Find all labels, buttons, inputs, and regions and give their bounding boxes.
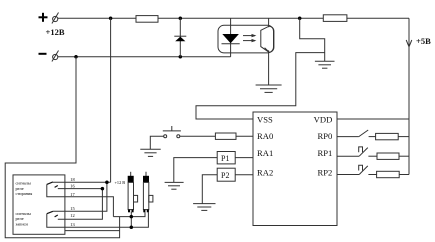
- relay1 pin down: [130, 212, 132, 228]
- LED triangle: [222, 34, 239, 43]
- wire P1 to ground: [174, 158, 217, 183]
- ground button: [140, 148, 160, 150]
- wire +5V drop: [408, 18, 410, 174]
- svg-text:RP2: RP2: [317, 167, 332, 177]
- svg-text:сигналы: сигналы: [16, 180, 31, 185]
- wire button to resistor: [180, 135, 216, 137]
- node collector junction: [298, 17, 302, 21]
- relay contact 2 lever: [47, 211, 53, 213]
- wire enclosure inner bottom line: [65, 230, 120, 232]
- node relay1 busB: [130, 226, 134, 230]
- wire +12V rail: [58, 17, 409, 19]
- LED cathode bar: [222, 43, 240, 45]
- svg-text:стирания: стирания: [16, 191, 33, 196]
- wire enclosure path from minus rail: [5, 57, 119, 238]
- node B1-B2: [101, 187, 105, 191]
- svg-text:RP0: RP0: [317, 131, 332, 141]
- node diode bottom: [179, 55, 183, 59]
- wire RP1: [337, 155, 359, 157]
- svg-text:17: 17: [70, 192, 75, 197]
- svg-text:P1: P1: [221, 154, 229, 163]
- switch S1 lever: [359, 130, 368, 137]
- ground P1: [165, 181, 184, 183]
- relay K2: [143, 172, 153, 212]
- minus sign: [39, 53, 47, 55]
- wire P1 to RA1: [235, 157, 253, 159]
- svg-text:+5В: +5В: [416, 36, 431, 46]
- wire RP2: [337, 174, 359, 176]
- button SB1: [164, 135, 167, 138]
- wire common C1: [47, 184, 114, 216]
- wire common C2: [47, 212, 149, 227]
- ground collector branch: [315, 60, 335, 62]
- arrow +5B: [406, 40, 412, 47]
- wire A1: [53, 181, 111, 183]
- svg-text:12: 12: [70, 213, 74, 218]
- svg-text:13: 13: [70, 222, 75, 227]
- relay contact 1 lever: [47, 182, 53, 185]
- svg-text:VDD: VDD: [314, 114, 333, 124]
- switch S3 lever: [359, 166, 368, 175]
- resistor R5: [377, 153, 399, 159]
- wire RP0: [337, 136, 359, 138]
- diode VD1: [179, 18, 181, 57]
- wire collector to ground: [300, 18, 325, 61]
- ground opto emitter: [256, 84, 282, 86]
- svg-text:RA2: RA2: [257, 167, 273, 177]
- wire B2: [58, 189, 103, 220]
- wire P2 to ground: [202, 175, 217, 204]
- light arrow 2: [243, 40, 255, 42]
- bus A relay feed: [113, 212, 145, 216]
- svg-text:RP1: RP1: [317, 148, 332, 158]
- wire A2: [53, 182, 107, 211]
- node A1-A2: [105, 180, 109, 184]
- collector wire: [268, 18, 270, 27]
- resistor R2: [323, 15, 347, 22]
- wire +12 drop to relay area: [110, 18, 112, 182]
- optocoupler U1 box: [218, 25, 274, 53]
- LED anode wire: [230, 18, 232, 57]
- ground P2: [193, 203, 215, 205]
- svg-text:VSS: VSS: [257, 114, 273, 124]
- phototransistor envelope: [261, 26, 274, 52]
- svg-text:реле: реле: [16, 216, 24, 221]
- svg-text:16: 16: [70, 184, 75, 189]
- contact tick B1: [55, 186, 58, 188]
- node diode top: [179, 17, 183, 21]
- svg-text:15: 15: [70, 206, 75, 211]
- node relay1 busA: [130, 215, 134, 219]
- signal source box: [13, 175, 65, 234]
- svg-text:сигналы: сигналы: [16, 211, 31, 216]
- terminal -12V: [53, 54, 58, 59]
- resistor R6: [377, 171, 400, 177]
- emitter arrow: [265, 48, 269, 51]
- relay K1: [128, 172, 138, 212]
- resistor R4: [376, 133, 399, 139]
- connector P1: [217, 152, 235, 164]
- light arrow 1: [243, 35, 255, 37]
- svg-text:P2: P2: [221, 171, 229, 180]
- svg-text:RA0: RA0: [257, 131, 273, 141]
- svg-text:RA1: RA1: [257, 148, 273, 158]
- emitter wire: [268, 50, 270, 85]
- svg-text:+12В: +12В: [46, 27, 65, 37]
- wire button to ground: [150, 136, 163, 149]
- wire VSS route: [196, 53, 325, 119]
- IC U2 box: [253, 112, 337, 226]
- terminal +12V: [53, 16, 58, 21]
- svg-text:+12 В: +12 В: [115, 180, 126, 185]
- switch S2 lever: [359, 148, 368, 157]
- node junction +rail to down rail: [109, 17, 113, 21]
- wire RA0: [236, 135, 253, 137]
- wire B1: [58, 188, 103, 190]
- svg-text:18: 18: [70, 177, 75, 182]
- wire P2 to RA2: [235, 174, 253, 176]
- resistor R1: [136, 16, 158, 23]
- resistor R3: [215, 133, 236, 139]
- svg-text:записи: записи: [16, 222, 29, 227]
- wire VDD: [337, 118, 409, 120]
- connector P2: [217, 168, 235, 181]
- wire -12V rail: [58, 56, 231, 58]
- contact tick B2: [55, 215, 58, 217]
- svg-text:реле: реле: [16, 186, 24, 191]
- plus sign: [39, 13, 48, 22]
- node junction -rail: [74, 55, 78, 59]
